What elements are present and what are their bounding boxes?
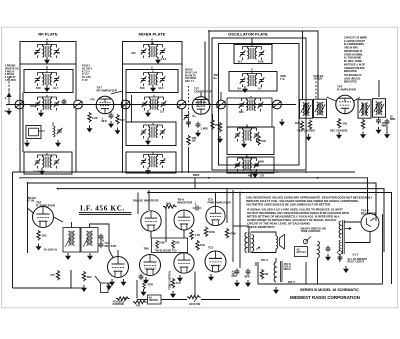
capacitor C15 filter: [246, 269, 251, 276]
svg-text:8.2K: 8.2K: [258, 60, 264, 64]
svg-text:10K1W: 10K1W: [192, 136, 197, 143]
ground below R9: [360, 132, 366, 139]
bleeder network box: [152, 238, 188, 253]
pot out wire: [137, 299, 148, 301]
transformer T5 osc band A: [240, 45, 265, 61]
ground osc C: [279, 119, 285, 126]
svg-text:4ASWITCH: 4ASWITCH: [149, 297, 158, 302]
ground below C16: [325, 254, 331, 261]
transformer T17 osc band E: [235, 156, 260, 172]
V7 feed wire: [215, 193, 217, 207]
resistor R10 V4 cathode: [37, 230, 40, 240]
tuning bus wire: [6, 104, 296, 106]
ground below T16: [241, 141, 247, 148]
mixer right rail wire: [181, 64, 183, 100]
left rail wire down: [12, 172, 14, 288]
transformer T15 RF band D: [35, 153, 60, 169]
transformer T6 osc band B: [240, 72, 265, 88]
svg-text:REC CHASSIS: REC CHASSIS: [298, 129, 316, 133]
back bias wire: [71, 287, 84, 289]
rectifier output wire: [345, 232, 370, 243]
svg-text:10K: 10K: [261, 139, 266, 143]
antenna: [7, 90, 12, 105]
junction bus 11: [27, 182, 29, 184]
resistor R19 bias bleed: [56, 270, 59, 280]
tube V10 output: [174, 253, 194, 273]
cap feed wire: [239, 258, 241, 268]
loop antenna: [26, 126, 45, 139]
tube V5 7F7 phase inverter: [141, 211, 161, 231]
capacitor C5 V2 bypass: [196, 122, 201, 129]
svg-text:540: 540: [140, 86, 145, 90]
capacitor C17 filament: [338, 255, 343, 262]
mixer right rail wire lower: [181, 109, 183, 172]
svg-text:C: C: [151, 66, 154, 70]
variable capacitor C1b gang: [74, 100, 83, 109]
mixer feed wire: [131, 95, 133, 122]
detector to V8 wire: [109, 250, 113, 258]
mains wire: [305, 262, 307, 284]
oscillator inner box: [219, 44, 300, 166]
potentiometer volume control: [116, 297, 130, 304]
svg-text:25MMF: 25MMF: [390, 116, 396, 121]
resistor R20 back bias: [82, 271, 85, 281]
mixer plate band-B box: [126, 70, 178, 93]
switch right wire: [161, 299, 187, 301]
variable capacitor C1d gang: [177, 100, 186, 109]
svg-text:7A6 BLEEDER 7C5: 7A6 BLEEDER 7C5: [155, 250, 178, 253]
RF right rail wire: [75, 64, 77, 100]
V3 grid wire: [327, 97, 337, 101]
resistor R6 AVC: [300, 121, 303, 131]
svg-text:7J7CONVERTER: 7J7CONVERTER: [194, 87, 213, 94]
tube V8 7A6 duplex diode: [108, 257, 129, 278]
ground below T7: [38, 110, 44, 117]
resistor R5 mixer-osc: [187, 135, 190, 145]
resistor R3 V2 cathode: [211, 119, 214, 129]
capacitor C7 mixer top: [186, 120, 191, 127]
ground below T2: [44, 85, 50, 92]
capacitor C8 diode: [376, 118, 381, 125]
svg-text:2.2K: 2.2K: [92, 116, 98, 120]
tube V2 7J7 converter: [192, 97, 210, 115]
switch box local-distance: [148, 295, 162, 304]
AC outlet box: [295, 247, 308, 257]
junction bus 9: [239, 192, 241, 194]
ground below V9: [143, 277, 149, 284]
mixer inner rail wire: [125, 93, 127, 123]
svg-text:4700: 4700: [148, 284, 154, 287]
junction osc feed: [208, 30, 210, 32]
ground below C15: [245, 280, 251, 287]
field coil L2: [274, 261, 282, 282]
output transformer link wire: [233, 225, 249, 227]
svg-text:A: A: [151, 38, 154, 42]
ground below V11: [208, 274, 214, 281]
svg-text:5.2: 5.2: [160, 110, 164, 114]
bottom left return wire: [13, 270, 72, 288]
junction bus 1: [122, 171, 124, 173]
ground below R6: [306, 134, 312, 141]
ground below C9: [384, 132, 390, 139]
junction bus 10: [57, 188, 59, 190]
audio right rail wire: [232, 190, 234, 262]
svg-text:TOLERANCE IS±20% UNLESSINDICAT: TOLERANCE IS±20% UNLESSINDICATED: [344, 74, 362, 84]
IF underline 2: [79, 213, 132, 215]
ground below R16: [170, 291, 176, 298]
tube V12 7Y4-G rectifier: [361, 214, 379, 232]
V6 to bleeder wire: [183, 230, 185, 239]
svg-text:470: 470: [90, 98, 95, 102]
junction bus 5: [276, 171, 278, 173]
transformer T8 mixer band C: [142, 95, 167, 111]
svg-text:RF PLATE: RF PLATE: [38, 32, 58, 37]
capacitor C3 V1 bypass: [109, 113, 114, 120]
svg-text:B+: B+: [193, 114, 197, 118]
osc band-A box: [234, 45, 272, 64]
variable capacitor C1c gang: [121, 100, 130, 109]
node A stub wire: [46, 42, 48, 45]
transformer T1 RF band A: [35, 43, 60, 59]
svg-text:14.5: 14.5: [161, 57, 167, 61]
rectifier plate wire: [345, 221, 362, 223]
resistor R7 AVC 2: [308, 120, 311, 130]
svg-text:561 A: 561 A: [261, 258, 268, 262]
junction bus 7: [305, 171, 307, 173]
capacitor C13 V9: [139, 274, 144, 281]
RF left rail wire: [19, 64, 21, 172]
tube V3 7A7 IF amplifier: [336, 95, 354, 113]
resistor R1 V1 cathode: [88, 112, 91, 122]
ground below V8 right: [121, 279, 127, 286]
junction bus 4: [250, 171, 252, 173]
svg-text:C: C: [251, 68, 253, 72]
ground below C5: [195, 130, 201, 137]
svg-text:WES: WES: [193, 173, 200, 177]
svg-text:7B7IF AMPLIFIER: 7B7IF AMPLIFIER: [36, 201, 56, 208]
svg-text:REC CHASSIS: REC CHASSIS: [330, 129, 348, 133]
svg-text:4.7K: 4.7K: [195, 233, 201, 237]
RF band-D box: [24, 152, 72, 174]
transformer T16 osc band D: [235, 126, 260, 142]
mains wire 2: [317, 258, 319, 284]
svg-text:A: A: [5, 96, 7, 100]
svg-text:VOLUMECONTROL: VOLUMECONTROL: [113, 302, 125, 307]
osc band-B box: [229, 72, 277, 92]
svg-text:600: 600: [239, 110, 244, 114]
svg-text:.1MFD: .1MFD: [102, 118, 108, 123]
svg-text:ALL.05600V: ALL.05600V: [232, 271, 238, 279]
T19 to detector wire: [90, 224, 110, 250]
potentiometer tone control: [187, 295, 201, 302]
V4 plate wire: [54, 217, 64, 222]
pot in wire: [136, 280, 138, 299]
transformer T4 mixer band B: [141, 71, 166, 87]
B+ bus wire 1: [13, 171, 356, 173]
ground below R3b: [217, 136, 223, 143]
V5 to bleeder wire: [150, 231, 152, 238]
svg-text:7 %: 7 %: [280, 77, 285, 81]
ground below V8 left: [109, 279, 115, 286]
ground phono: [106, 283, 112, 290]
V2 grid cap wire: [200, 93, 202, 97]
ground below L1: [55, 140, 61, 147]
svg-text:MIDWEST RADIO CORPORATION: MIDWEST RADIO CORPORATION: [290, 295, 360, 300]
B+ bus wire 4: [58, 189, 385, 252]
ground below T19: [87, 253, 93, 260]
svg-text:MFD: MFD: [245, 277, 250, 279]
svg-text:4450: 4450: [258, 160, 264, 164]
osc band-E box: [227, 157, 274, 173]
V1 plate feed wire: [111, 91, 123, 94]
ground below T3: [155, 57, 161, 64]
transformer T9 osc band C: [239, 96, 264, 112]
svg-text:47Ω SFIELD960 Ω: 47Ω SFIELD960 Ω: [284, 262, 292, 271]
tone right wire: [201, 299, 240, 301]
svg-text:P 250 VSG 100 VK 2.2 VG -1 V: P 250 VSG 100 VK 2.2 VG -1 VFIL 6.3VP .0…: [82, 66, 92, 83]
svg-text:ALL FILAMENTSPILOT LIGHTS: ALL FILAMENTSPILOT LIGHTS: [348, 258, 368, 264]
svg-text:540: 540: [36, 86, 41, 90]
tube V6 7B6 inverter: [174, 210, 194, 230]
capacitor C9 detector out: [385, 119, 390, 126]
resistor R16 V10 bias: [171, 278, 174, 288]
capacitor C11 detector: [99, 242, 104, 249]
ground below R1: [87, 126, 93, 133]
svg-text:CAPACITY 25 MMFD& ABOVE EXCEPT: CAPACITY 25 MMFD& ABOVE EXCEPTIN CONDENS…: [344, 37, 367, 50]
IF transformer T19 second can: [81, 228, 98, 253]
phono jack box: [101, 283, 109, 293]
svg-text:MIXER PLATE: MIXER PLATE: [139, 32, 166, 37]
power section box: [258, 214, 383, 284]
svg-text:440: 440: [131, 51, 136, 55]
svg-text:5 PRONGSPKR PLUG4 PIN 2V3 PIN: 5 PRONGSPKR PLUG4 PIN 2V3 PIN 6V2 GND 2V…: [5, 66, 19, 83]
capacitor C10 detector: [99, 234, 104, 241]
svg-text:250: 250: [343, 122, 348, 126]
ground filament: [343, 266, 349, 273]
heater arrow: [345, 228, 351, 230]
ground below R8: [336, 132, 342, 139]
junction bus 12: [147, 192, 149, 194]
svg-text:I.F. 456 KC.: I.F. 456 KC.: [80, 205, 125, 213]
svg-text:456 KC2D AF 1.4V49 VOLTSAVC MA: 456 KC2D AF 1.4V49 VOLTSAVC MAN.OSC 7 V: [185, 69, 197, 84]
ground below T1: [44, 57, 50, 64]
speaker wire bottom: [251, 249, 276, 253]
capacitor C2 trimmer: [62, 99, 67, 106]
svg-text:HUM B2250 ΩV: HUM B2250 ΩV: [314, 74, 324, 81]
svg-text:7B-6INVERTER: 7B-6INVERTER: [178, 198, 194, 205]
svg-text:B+ (250 V): B+ (250 V): [44, 248, 57, 252]
resistor R12 V6 cathode: [190, 230, 193, 240]
R14 feed wire: [226, 189, 228, 223]
svg-text:460: 460: [248, 175, 253, 178]
svg-text:B 2: B 2: [238, 60, 243, 64]
svg-text:250: 250: [42, 234, 47, 238]
svg-text:2 3.5: 2 3.5: [33, 170, 39, 174]
tone drop wire 2: [194, 272, 196, 298]
ground below R20: [81, 285, 87, 292]
ground below T8: [145, 110, 151, 117]
svg-text:150: 150: [176, 281, 181, 285]
tube V9 7B6 first audio: [140, 255, 161, 276]
C9 down wire: [386, 126, 388, 132]
transformer T2 RF band B: [35, 71, 60, 87]
mixer band-E box: [126, 152, 176, 173]
resistor R15 coupling: [196, 240, 199, 250]
tube V7 7C5 driver: [206, 206, 225, 225]
ground below field coil: [273, 287, 279, 294]
RF plate band-A box: [20, 42, 76, 65]
power transformer T21: [338, 220, 345, 254]
resistor R21 divider: [260, 269, 263, 279]
IF transformer T12 can: [373, 99, 386, 118]
ground below V10: [177, 275, 183, 282]
svg-text:A: A: [46, 38, 49, 42]
V5 feed wire 2: [148, 190, 150, 210]
output transformer T20: [245, 232, 254, 254]
gang feed wire: [220, 92, 222, 100]
mixer band-D box: [126, 122, 176, 146]
svg-text:WATTAGE ½ W OFCARBON UNLESSIND: WATTAGE ½ W OFCARBON UNLESSINDICATED: [344, 63, 366, 74]
switch S1 on-off: [303, 237, 311, 244]
svg-text:375: 375: [260, 175, 265, 178]
svg-text:50: 50: [34, 51, 37, 55]
mixer-osc vertical wire 1: [204, 42, 206, 100]
svg-text:100K: 100K: [159, 242, 165, 245]
IF underline 1: [79, 212, 132, 214]
svg-text:B: B: [46, 66, 48, 70]
svg-text:ACOUTLET: ACOUTLET: [297, 249, 307, 255]
tube V11 7C5 output beam: [205, 251, 226, 272]
capacitor C16 line: [326, 246, 331, 253]
resistor R14 V7 cathode: [225, 228, 228, 238]
svg-text:456 KCI.F. IN: 456 KCI.F. IN: [27, 196, 36, 203]
mixer left rail wire: [122, 64, 124, 172]
resistor R9 IF out: [361, 119, 364, 129]
ground below T4: [150, 85, 156, 92]
svg-text:50K: 50K: [166, 202, 171, 206]
svg-text:.1: .1: [194, 202, 197, 206]
svg-text:COIL RESISTANCE VALUES GIVEN A: COIL RESISTANCE VALUES GIVEN ARE APPROXI…: [246, 196, 373, 207]
svg-text:44.5: 44.5: [158, 86, 164, 90]
svg-text:IF SIGNAL VALUES 0-1/2 V ARE U: IF SIGNAL VALUES 0-1/2 V ARE USED, VALUE…: [247, 208, 349, 229]
mixer plate band-A box: [123, 42, 183, 65]
resistor R18 tone network: [133, 300, 147, 303]
svg-text:G: G: [5, 109, 7, 113]
capacitor C12 interstage: [193, 206, 202, 211]
svg-text:B+: B+: [214, 76, 218, 80]
speaker wire top: [251, 232, 276, 236]
output tap arrow: [256, 247, 260, 250]
transformer T13 mixer band D: [141, 123, 166, 139]
RF plate band-B box: [24, 70, 73, 93]
capacitor C14 filter: [235, 269, 240, 276]
svg-text:41.7: 41.7: [53, 86, 59, 90]
tube V1 7A7 RF amplifier: [96, 96, 114, 114]
gang coupling dashed wire: [188, 86, 190, 128]
R11 drop wire: [165, 207, 167, 242]
transformer T7 RF band C: [35, 95, 60, 111]
audio box top wire: [57, 188, 59, 190]
svg-text:SERIES B MODEL 16 SCHEMATI: SERIES B MODEL 16 SCHEMATIC: [300, 288, 359, 292]
trimmer C4 mixer pad: [184, 113, 190, 119]
resistor R8 V3 cathode: [337, 118, 340, 128]
gang coupling dashed wire 2: [315, 82, 317, 99]
osc feed vertical wire: [302, 31, 304, 100]
T18 top wire: [71, 222, 73, 228]
resistor R3b V2 screen: [218, 122, 221, 132]
ground below T18: [65, 253, 71, 260]
svg-text:7C5PWR AMPLIFIER: 7C5PWR AMPLIFIER: [208, 198, 232, 205]
cap feed wire 2: [255, 262, 257, 266]
resistor R11 V5 grid stop: [163, 205, 177, 208]
transformer T14 mixer band E: [141, 153, 166, 169]
svg-text:7Y4-GRECTIFIER: 7Y4-GRECTIFIER: [361, 209, 376, 216]
variable capacitor C1a gang: [15, 100, 24, 109]
svg-text:7A6DET-TAP: 7A6DET-TAP: [105, 241, 117, 248]
junction bus 3: [208, 177, 210, 179]
node A stub wire mixer: [151, 42, 153, 45]
svg-text:10K: 10K: [200, 243, 205, 247]
IF can 4 feed wire: [378, 80, 380, 97]
V5 feed wire 1: [137, 193, 139, 215]
svg-text:ON-OFF SWITCH ONTONE CONTROL: ON-OFF SWITCH ONTONE CONTROL: [301, 227, 326, 234]
field top wire: [275, 258, 277, 262]
svg-text:7A7IF AMPLIFIER: 7A7IF AMPLIFIER: [337, 85, 357, 92]
svg-text:TONE CONTROL: TONE CONTROL: [169, 270, 172, 290]
resistor R4 osc D: [257, 135, 260, 145]
ground antenna: [6, 108, 12, 115]
antenna dashed link wire: [8, 78, 10, 90]
oscillator B+ top feed wire: [209, 31, 318, 104]
ground below T14: [145, 168, 151, 175]
speaker: [276, 235, 285, 250]
IF transformer T11 can: [358, 100, 371, 119]
svg-text:5W: 5W: [265, 273, 269, 276]
osc rail to bus: [250, 173, 252, 178]
svg-text:7B6: 7B6: [144, 247, 150, 251]
R5 bottom wire: [188, 147, 190, 172]
B+ bus wire 3: [28, 183, 377, 221]
svg-text:600: 600: [87, 275, 92, 279]
RF right rail wire lower: [75, 109, 77, 172]
svg-text:RESISTANCE ISGIVEN IN OHMS,K=: RESISTANCE ISGIVEN IN OHMS,K= THOUSANDM=…: [344, 50, 363, 63]
V3 plate wire: [354, 98, 361, 102]
ground below R10: [36, 244, 42, 251]
coil L1 RF wave trap: [53, 122, 55, 137]
junction drop wire: [194, 178, 196, 189]
ground below R2: [115, 128, 121, 135]
svg-text:.1 MFD: .1 MFD: [200, 128, 208, 131]
junction bus 2: [181, 171, 183, 173]
svg-text:LOUD SW.: LOUD SW.: [189, 304, 201, 306]
resistor R2 V1 screen: [116, 114, 119, 124]
ground loop antenna: [24, 140, 30, 147]
svg-text:525: 525: [30, 104, 35, 108]
osc band-C box: [227, 98, 272, 127]
svg-text:OSCILLATOR PLATE: OSCILLATOR PLATE: [228, 31, 268, 36]
ground below C14: [234, 280, 240, 287]
ground below T17: [252, 171, 258, 178]
resistor R13 V7 grid: [204, 227, 207, 237]
IF transformer T18 output can: [63, 228, 80, 253]
IF box left rail wire: [27, 183, 29, 253]
variable capacitor C1e gang: [217, 100, 226, 109]
ground below C3: [108, 121, 114, 128]
tube V4 7B7 IF amplifier: [33, 207, 54, 228]
V2 cathode wire: [212, 114, 214, 119]
osc band-D box: [227, 127, 274, 155]
phono wire: [95, 276, 101, 283]
